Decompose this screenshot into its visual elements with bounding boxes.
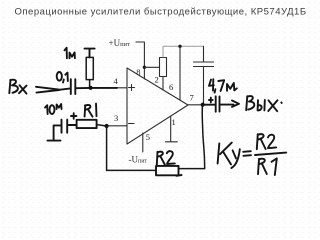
node at pin8 wire / resistor branch (143, 66, 146, 69)
feedback bottom wire (107, 169, 156, 171)
resistor 1м (86, 57, 93, 79)
op-amp minus input marking (129, 123, 135, 125)
pin 5 wire (142, 133, 144, 152)
polarity plus of capacitor 10м (71, 113, 76, 119)
svg-text:3: 3 (114, 113, 118, 123)
svg-text:5: 5 (146, 132, 150, 142)
node at pin 3 (105, 124, 109, 128)
svg-text:4: 4 (114, 76, 119, 86)
wire +Uпит to pin 8 (136, 42, 144, 79)
pin 1 wire with open terminal bar (166, 117, 178, 142)
fraction bar (255, 153, 286, 155)
capacitor 0,1 (71, 79, 76, 94)
node at pin4 wire (89, 86, 93, 90)
svg-text:6: 6 (169, 82, 173, 92)
R2 label (157, 151, 175, 165)
capacitor 4,7м (216, 96, 220, 111)
Вх input label (handwritten) (9, 80, 26, 94)
wire capacitor 10м to R1 (68, 124, 77, 126)
svg-text:2: 2 (155, 75, 159, 85)
pin 6 wire (179, 46, 181, 100)
output node at pin 7 (201, 103, 205, 107)
formula numerator R2 (257, 134, 276, 149)
feedback wire down from pin3 node (106, 126, 108, 170)
svg-text:7: 7 (190, 93, 194, 103)
wire R1 to pin3 node (97, 125, 107, 126)
open terminal bar of resistor 1м (85, 49, 95, 58)
wire resistor 1м to node (89, 80, 91, 87)
wire node to capacitor 4,7м (203, 104, 215, 106)
Ky = R2/R1 formula (218, 143, 251, 168)
svg-text:-Uпит: -Uпит (129, 155, 148, 165)
op-amp U1 triangle (127, 68, 188, 144)
capacitor 10м (62, 120, 68, 133)
wire node to correction resistor left side (144, 66, 159, 68)
wire capacitor to node (76, 87, 117, 89)
1м value label (65, 48, 75, 59)
4,7м value label (209, 79, 237, 92)
correction capacitor top right (194, 46, 214, 104)
op-amp plus input marking (129, 85, 135, 91)
0,1 value label (57, 72, 68, 83)
output arrow (220, 101, 239, 107)
pin 3 wire (inverting input) (107, 125, 127, 127)
wire resistor bottom to pin 2 (162, 77, 164, 91)
Вых output label (246, 96, 282, 111)
pin 4 wire (non-inverting input) (104, 87, 127, 89)
wire capacitor 10м to ground (54, 125, 61, 139)
ground (48, 140, 61, 142)
svg-text:8: 8 (136, 67, 140, 77)
pin 7 output wire (188, 104, 215, 106)
node pin6 on top rail (178, 45, 181, 48)
10м value label (45, 104, 62, 114)
correction resistor (pin 2) (160, 58, 167, 77)
input arrow (36, 87, 70, 93)
svg-text:Операционные усилители быстрод: Операционные усилители быстродействующие… (15, 7, 307, 18)
R1 label (85, 104, 97, 117)
resistor R1 (77, 120, 97, 128)
wire R2 to output node (179, 106, 205, 169)
resistor R2 (156, 166, 179, 175)
polarity plus of capacitor 4,7м (209, 98, 213, 103)
formula denominator R1 (258, 158, 277, 175)
wire resistor top to top rail (162, 46, 164, 57)
svg-text:+Uпит: +Uпит (109, 38, 131, 48)
top correction rail (163, 45, 204, 47)
svg-text:1: 1 (172, 117, 176, 127)
